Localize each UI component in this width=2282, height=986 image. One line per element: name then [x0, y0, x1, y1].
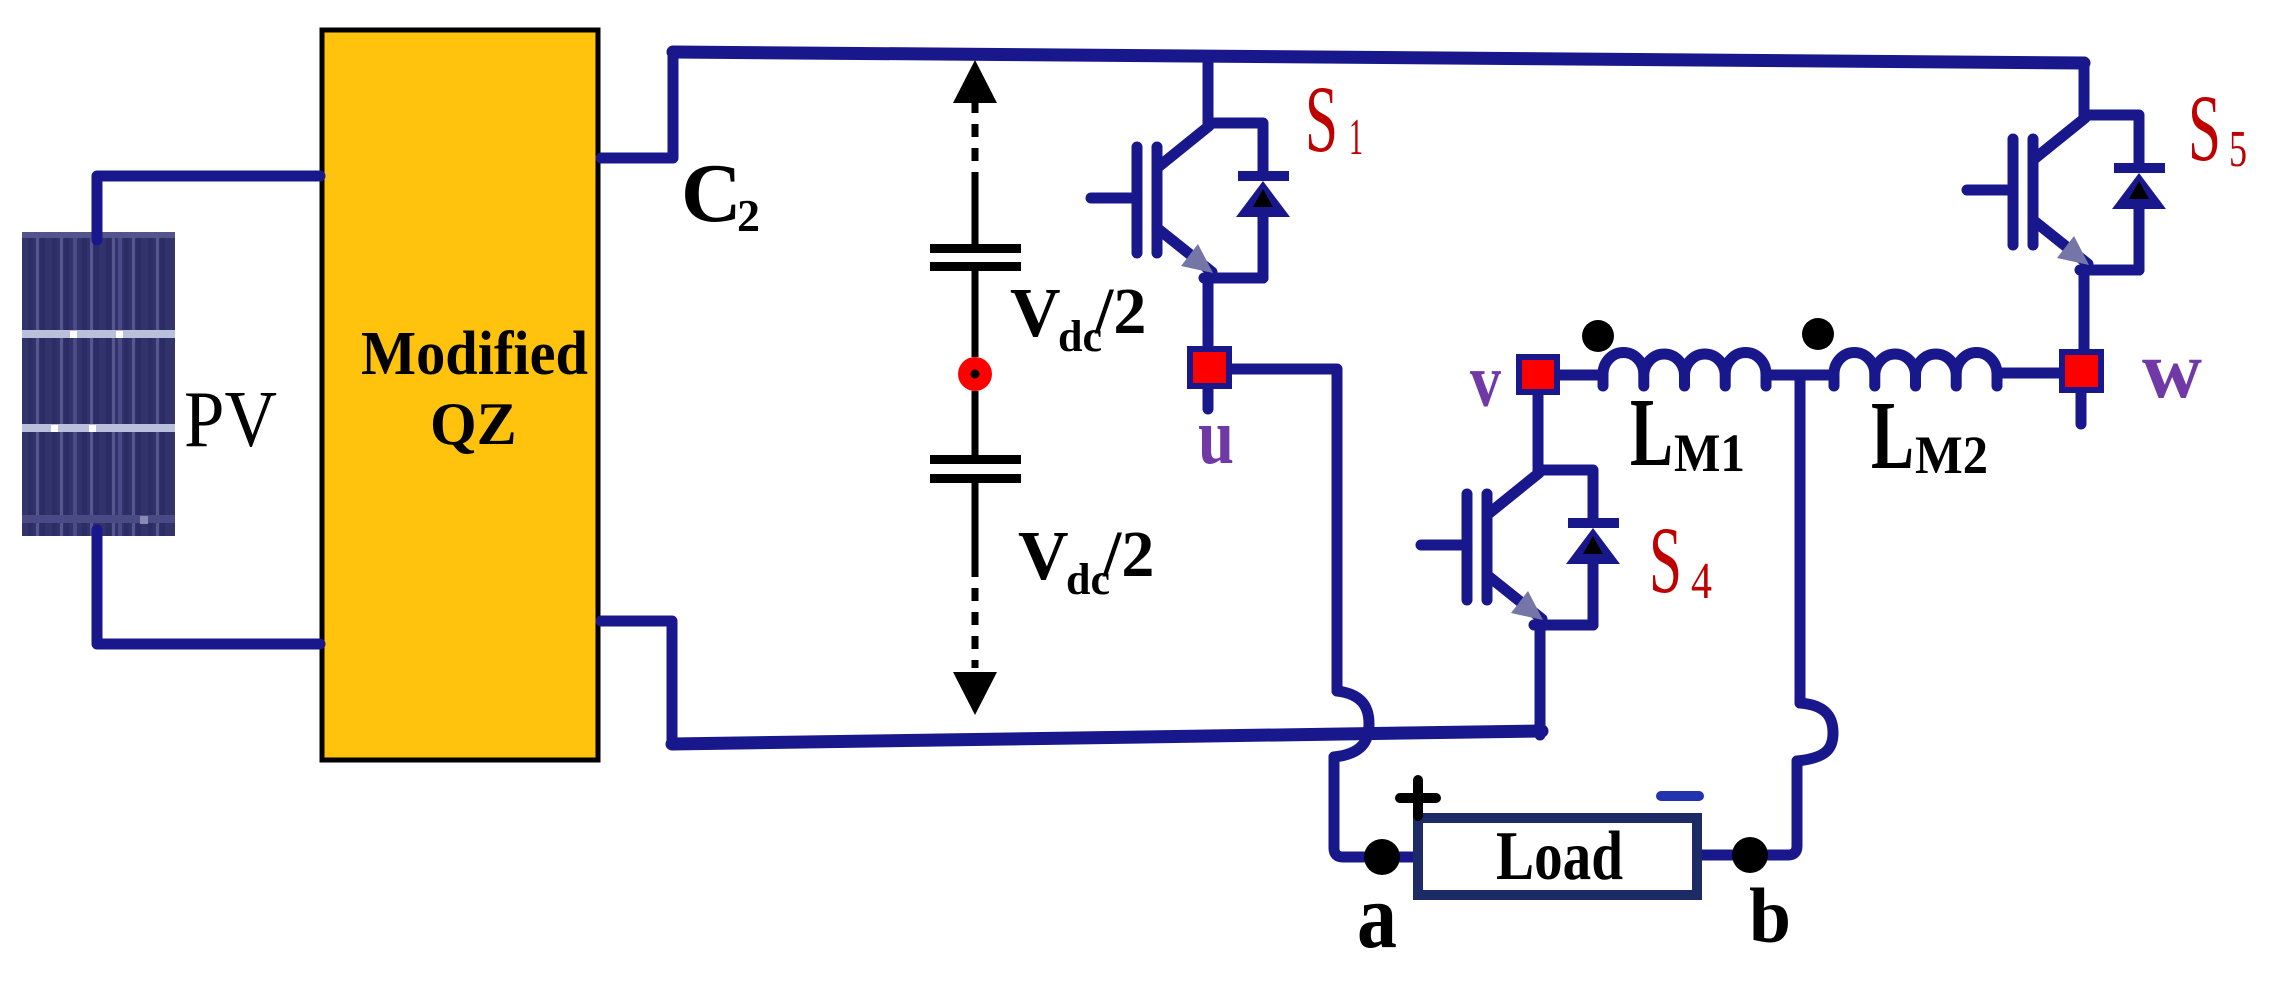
svg-text:4: 4: [1691, 553, 1712, 610]
svg-text:C: C: [681, 147, 742, 240]
svg-text:S: S: [2188, 75, 2221, 181]
svg-text:PV: PV: [184, 376, 277, 464]
svg-text:Load: Load: [1496, 818, 1623, 895]
svg-text:/2: /2: [1094, 275, 1146, 348]
svg-text:QZ: QZ: [430, 391, 517, 457]
svg-text:L: L: [1630, 379, 1673, 487]
svg-text:/2: /2: [1102, 518, 1154, 591]
svg-text:V: V: [1010, 275, 1061, 352]
svg-text:u: u: [1198, 393, 1234, 481]
svg-text:S: S: [1649, 507, 1682, 613]
svg-text:V: V: [1018, 518, 1069, 595]
svg-text:v: v: [1470, 340, 1501, 423]
svg-text:M1: M1: [1674, 423, 1745, 483]
svg-text:Modified: Modified: [361, 320, 588, 388]
svg-text:w: w: [2142, 324, 2202, 415]
svg-text:1: 1: [1349, 109, 1363, 166]
svg-text:S: S: [1305, 66, 1338, 172]
svg-text:M2: M2: [1915, 425, 1988, 485]
svg-text:b: b: [1749, 872, 1791, 959]
svg-text:L: L: [1871, 382, 1914, 490]
svg-text:2: 2: [737, 190, 760, 241]
svg-text:a: a: [1357, 865, 1397, 967]
svg-text:5: 5: [2229, 121, 2247, 178]
